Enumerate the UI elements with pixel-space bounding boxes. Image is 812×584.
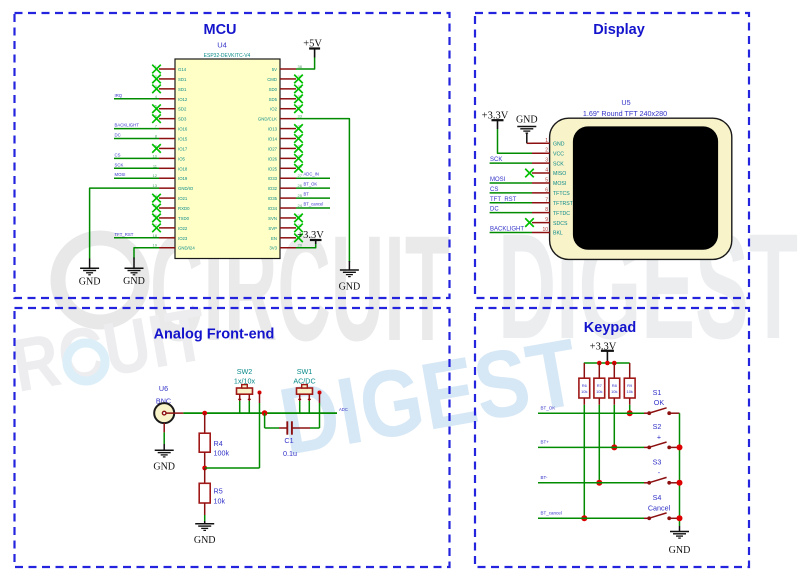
svg-text:5: 5: [545, 177, 548, 183]
svg-text:BKL: BKL: [553, 231, 563, 237]
U4 pin 8 (IO15) left stub: [155, 134, 188, 142]
svg-text:100k: 100k: [214, 449, 230, 458]
U4 pin 38 (5V) right stub: [272, 64, 303, 72]
svg-text:3: 3: [545, 158, 548, 164]
wire SW2 terminal to divider midpoint: [259, 403, 261, 468]
svg-text:TFT_RST: TFT_RST: [490, 197, 517, 203]
svg-text:GND: GND: [153, 462, 175, 473]
svg-text:+: +: [657, 432, 661, 441]
svg-text:S1: S1: [653, 388, 662, 397]
U4 pin 37 (CMD) right stub: [267, 74, 303, 83]
svg-text:IO22: IO22: [178, 226, 188, 231]
svg-text:U5: U5: [621, 98, 630, 107]
svg-text:GND: GND: [339, 281, 361, 292]
svg-text:IO32: IO32: [268, 186, 278, 191]
wire net DC to U5 pin 8: [490, 207, 532, 213]
wire net MOSI to U4 pin 12: [114, 172, 159, 178]
svg-text:10k: 10k: [214, 497, 226, 506]
svg-text:ESP32-DEVKITC-V4: ESP32-DEVKITC-V4: [204, 53, 251, 59]
svg-text:6: 6: [545, 187, 548, 193]
svg-text:R8: R8: [612, 383, 618, 388]
R4 labels: [214, 439, 230, 458]
svg-text:BT_cancel: BT_cancel: [304, 202, 324, 207]
display U5 screen: [573, 126, 718, 249]
svg-text:IO27: IO27: [268, 146, 278, 151]
svg-text:Keypad: Keypad: [584, 320, 636, 336]
junction node C1 branch: [262, 410, 268, 416]
svg-text:BACKLIGHT: BACKLIGHT: [490, 226, 524, 232]
switch S2 (+): [644, 442, 680, 449]
svg-text:IO18: IO18: [178, 166, 188, 171]
U4 pin 11 (IO18) left stub: [153, 163, 188, 171]
svg-text:MCU: MCU: [203, 22, 236, 38]
svg-text:2: 2: [545, 148, 548, 154]
wire +3.3V bus: [584, 362, 630, 364]
svg-text:IO19: IO19: [178, 176, 188, 181]
svg-text:AC/DC: AC/DC: [293, 377, 315, 386]
wire net SCK to U4 pin 11: [114, 162, 159, 168]
SW1 pin wires: [300, 401, 310, 413]
junction node R8 row: [611, 444, 617, 450]
U4 pin 34 (IO2) right stub: [270, 104, 303, 113]
U5 pin 8 (TFTDC) stub: [532, 207, 570, 217]
svg-text:MOSI: MOSI: [490, 177, 506, 183]
svg-text:GND/I24: GND/I24: [178, 246, 195, 251]
svg-text:IO25: IO25: [268, 166, 278, 171]
svg-text:IRQ: IRQ: [115, 93, 123, 98]
junction node R9 row: [627, 410, 633, 416]
svg-text:DC: DC: [490, 207, 499, 213]
svg-text:SCK: SCK: [553, 161, 564, 167]
svg-text:MOSI: MOSI: [553, 181, 566, 187]
svg-text:GND: GND: [194, 535, 216, 546]
wire net BT from U4 pin 25: [296, 192, 330, 199]
svg-text:ADC_IN: ADC_IN: [304, 172, 319, 177]
wire U4 5V pin to +5V: [296, 58, 315, 70]
U4 pin 32 (IO13) right stub: [268, 124, 303, 133]
switch S3 (-): [644, 477, 680, 484]
svg-text:IO26: IO26: [268, 156, 278, 161]
svg-text:Analog Front-end: Analog Front-end: [154, 327, 275, 343]
wire net IRQ to U4 pin 4: [114, 93, 159, 99]
U4 pin 24 (IO34) right stub: [268, 203, 303, 211]
display U5 body: [550, 118, 732, 259]
svg-text:R4: R4: [214, 439, 223, 448]
SW2 pin wires: [240, 401, 250, 413]
svg-text:SW2: SW2: [237, 367, 253, 376]
wire net TFT_RST to U4 pin 18: [114, 232, 159, 238]
U4 pin 25 (IO35) right stub: [268, 193, 303, 201]
svg-text:IO2: IO2: [270, 107, 278, 112]
wire net BT_OK from U4 pin 26: [296, 182, 330, 189]
U5 pin 4 (MISO) stub: [525, 168, 566, 178]
svg-text:Cancel: Cancel: [648, 503, 671, 512]
svg-text:SVN: SVN: [268, 216, 277, 221]
panel border: Display section: [475, 13, 749, 298]
U4 pin 12 (IO19) left stub: [153, 173, 188, 181]
svg-text:BT_OK: BT_OK: [304, 182, 318, 187]
resistor R8 (10k pull-up): [609, 363, 620, 405]
svg-text:SVP: SVP: [268, 226, 277, 231]
svg-text:SCK: SCK: [115, 162, 124, 167]
junction node divider midpoint: [202, 466, 207, 471]
svg-text:G14: G14: [178, 67, 187, 72]
BNC connector U6 body: [154, 403, 174, 423]
S1 labels: [653, 388, 665, 407]
ground symbol GND (BNC): [155, 450, 174, 457]
junction node R7 row: [596, 480, 602, 486]
wire U5 GND pin: [526, 133, 528, 143]
wire U4 3V3 pin to +3.3V: [296, 244, 316, 248]
svg-text:CS: CS: [490, 187, 498, 193]
svg-text:VCC: VCC: [553, 151, 564, 157]
wire main to C1: [265, 413, 279, 428]
svg-text:CMD: CMD: [267, 77, 277, 82]
svg-text:BACKLIGHT: BACKLIGHT: [115, 123, 140, 128]
svg-text:10k: 10k: [596, 389, 602, 394]
U4 pin 28 (IO25) right stub: [268, 163, 303, 172]
svg-text:BT_cancel: BT_cancel: [541, 511, 562, 516]
svg-text:R9: R9: [627, 383, 633, 388]
wire net CS to U4 pin 10: [114, 152, 159, 158]
U5 pin 2 (VCC) stub: [532, 148, 564, 158]
svg-text:GND/IO: GND/IO: [178, 186, 194, 191]
ground symbol GND (keypad): [679, 526, 681, 531]
svg-text:R6: R6: [582, 383, 588, 388]
svg-text:S2: S2: [653, 422, 662, 431]
power symbol +5V: [303, 39, 322, 58]
junction nodes keypad common: [677, 444, 683, 521]
SW2 labels: [234, 367, 256, 386]
switch S1 (OK): [644, 408, 680, 415]
svg-text:R7: R7: [597, 383, 603, 388]
svg-text:3V3: 3V3: [269, 246, 277, 251]
switch S4 (Cancel): [644, 513, 680, 520]
U4 pin 5 (SD2) left stub: [152, 104, 187, 113]
U5 pin 9 (SDCS) stub: [525, 217, 568, 227]
S2 labels: [653, 422, 662, 441]
wire net BACKLIGHT to U4 pin 7: [114, 123, 159, 129]
ground symbol GND (R5): [195, 524, 214, 531]
U4 pin 18 (IO23) left stub: [153, 233, 188, 241]
svg-text:1: 1: [545, 138, 548, 144]
svg-text:+3.3V: +3.3V: [297, 230, 324, 241]
svg-text:IO23: IO23: [178, 236, 188, 241]
svg-text:IO5: IO5: [178, 156, 186, 161]
svg-text:BT_OK: BT_OK: [541, 405, 556, 410]
wire net ADC_IN from U4 pin 27: [296, 172, 330, 179]
svg-text:C1: C1: [284, 436, 293, 445]
SW1 third terminal: [318, 391, 322, 404]
svg-text:IO34: IO34: [268, 206, 278, 211]
svg-text:GND: GND: [553, 142, 565, 148]
U4 pin 14 (IO21) left stub: [152, 193, 188, 202]
wire R8 to button row: [613, 405, 615, 448]
svg-text:IO12: IO12: [178, 97, 188, 102]
svg-text:ADC: ADC: [339, 407, 348, 412]
svg-text:+5V: +5V: [303, 39, 322, 50]
U4 pin 9 (IO17) left stub: [152, 143, 188, 152]
wire keypad common to GND: [679, 413, 681, 526]
R5 labels: [214, 487, 226, 506]
ground symbol GND (display): [516, 114, 538, 133]
watermark CIRCUIT DIGEST (background logo): [6, 202, 798, 476]
svg-text:IO16: IO16: [178, 127, 188, 132]
U4 pin 17 (IO22) left stub: [152, 223, 188, 232]
svg-text:IO33: IO33: [268, 176, 278, 181]
wire net TFT_RST to U5 pin 7: [490, 197, 532, 203]
U4 pin 16 (TXD0) left stub: [152, 213, 189, 222]
U4 pin 3 (SD1) left stub: [152, 84, 187, 93]
svg-text:U6: U6: [159, 384, 168, 393]
junction nodes on +3.3V bus: [597, 361, 617, 366]
U4 pin 7 (IO16) left stub: [155, 124, 188, 132]
wire net BACKLIGHT to U5 pin 10: [490, 226, 532, 232]
wire net BT_cancel from U4 pin 24: [296, 202, 330, 209]
wire net SCK to U5 pin 3: [490, 157, 532, 163]
svg-text:S4: S4: [653, 493, 662, 502]
U4 pin 35 (SD5) right stub: [269, 94, 303, 103]
wire R6 to button row: [583, 405, 585, 519]
wire U4 GND/CLK pin to GND (right): [296, 119, 349, 262]
svg-text:SD1: SD1: [178, 87, 187, 92]
svg-text:GND: GND: [123, 276, 145, 287]
svg-text:SCK: SCK: [490, 157, 502, 163]
ground symbol GND (MCU left 1): [89, 259, 91, 269]
ground symbol GND (MCU right): [348, 261, 350, 270]
resistor R5: [199, 468, 210, 524]
svg-text:1.69" Round TFT 240x280: 1.69" Round TFT 240x280: [583, 109, 667, 118]
panel border: Analog Front-end section: [15, 308, 450, 567]
svg-text:SD1: SD1: [178, 77, 187, 82]
U4 pin 20 (3V3) right stub: [269, 243, 302, 251]
svg-text:SD2: SD2: [178, 107, 187, 112]
svg-text:MOSI: MOSI: [115, 172, 126, 177]
svg-text:TFTRST: TFTRST: [553, 201, 574, 207]
svg-text:TFTDC: TFTDC: [553, 211, 570, 217]
svg-text:OK: OK: [654, 398, 665, 407]
svg-text:S3: S3: [653, 458, 662, 467]
svg-text:BT+: BT+: [541, 440, 550, 445]
svg-text:TFT_RST: TFT_RST: [115, 232, 134, 237]
wire divider tap: [205, 467, 260, 469]
wire net BT_OK row: [538, 405, 644, 413]
svg-text:IO35: IO35: [268, 196, 278, 201]
wire net BT_cancel row: [538, 511, 644, 519]
svg-text:GND: GND: [516, 114, 538, 125]
resistor R7 (10k pull-up): [594, 363, 605, 405]
U5 pin 7 (TFTRST) stub: [532, 197, 574, 207]
resistor R9 (10k pull-up): [624, 363, 635, 405]
svg-text:7: 7: [545, 197, 548, 203]
U4 pin 10 (IO5) left stub: [153, 153, 186, 161]
svg-text:Display: Display: [593, 22, 645, 38]
svg-text:DC: DC: [115, 133, 121, 138]
switch SW1 body: [297, 385, 313, 401]
panel border: MCU section: [15, 13, 450, 298]
U4 pin 23 (SVN) right stub: [268, 213, 303, 222]
U4 pin 4 (IO12) left stub: [155, 94, 188, 102]
svg-text:IO21: IO21: [178, 196, 188, 201]
U5 pin 6 (TFTCS) stub: [532, 187, 570, 197]
U4 pin 36 (SD0) right stub: [269, 84, 303, 93]
wire net CS to U5 pin 6: [490, 187, 532, 193]
svg-text:RXD0: RXD0: [178, 206, 190, 211]
S3 labels: [653, 458, 662, 477]
U5 pin 3 (SCK) stub: [532, 158, 564, 168]
U4 pin 22 (SVP) right stub: [268, 223, 302, 232]
svg-text:10k: 10k: [581, 389, 587, 394]
svg-text:BT-: BT-: [541, 475, 549, 480]
wire net BT- row: [538, 475, 644, 483]
U4 pin 33 (GND/CLK) right stub: [258, 114, 303, 122]
wire analog main signal: [183, 412, 337, 414]
SW1 labels: [293, 367, 315, 386]
svg-text:EN: EN: [271, 236, 277, 241]
wire net MOSI to U5 pin 5: [490, 177, 532, 183]
wire R9 to button row: [629, 405, 631, 413]
svg-text:0.1u: 0.1u: [283, 449, 297, 458]
svg-text:R5: R5: [214, 487, 223, 496]
svg-text:9: 9: [545, 217, 548, 223]
U5 pin 1 (GND) stub: [532, 138, 565, 148]
junction node R6 row: [581, 515, 587, 521]
U4 pin 19 (GND/I24) left stub: [153, 243, 196, 251]
U4 pin 13 (GND/IO) left stub: [153, 183, 194, 191]
svg-text:10: 10: [542, 227, 548, 233]
svg-text:SW1: SW1: [297, 367, 313, 376]
wire U4 pin 19 to GND: [134, 248, 159, 259]
svg-text:4: 4: [545, 168, 548, 174]
SW2 third terminal: [258, 391, 262, 404]
U4 pin 1 (G14) left stub: [152, 64, 187, 73]
svg-text:SD5: SD5: [269, 97, 278, 102]
svg-text:GND/CLK: GND/CLK: [258, 117, 277, 122]
svg-text:MISO: MISO: [553, 171, 566, 177]
wire +3.3V to U5 VCC pin: [498, 129, 533, 153]
C1 labels: [283, 436, 297, 458]
svg-text:U4: U4: [217, 41, 227, 50]
wire net DC to U4 pin 8: [114, 133, 159, 139]
U4 pin 21 (EN) right stub: [271, 233, 303, 242]
power symbol +3.3V (display): [482, 110, 509, 129]
U4 pin 26 (IO32) right stub: [268, 183, 303, 191]
U4 pin 6 (SD3) left stub: [152, 114, 187, 123]
svg-text:SD3: SD3: [178, 117, 187, 122]
wire SW1 terminal to C1: [319, 403, 321, 428]
U5 pin 10 (BKL) stub: [532, 227, 563, 237]
S4 labels: [648, 493, 671, 512]
svg-text:10k: 10k: [611, 389, 617, 394]
svg-text:IO13: IO13: [268, 127, 278, 132]
wire net BT+ row: [538, 440, 644, 448]
svg-text:10k: 10k: [626, 389, 632, 394]
svg-text:IO17: IO17: [178, 146, 188, 151]
capacitor C1: [279, 421, 310, 434]
junction node at R4 top: [202, 411, 207, 416]
ground symbol GND (MCU left 2): [133, 258, 135, 269]
U4 pin 30 (IO27) right stub: [268, 143, 303, 152]
U5 pin 5 (MOSI) stub: [532, 177, 566, 187]
wire C1 to SW1 terminal: [310, 427, 320, 429]
resistor R6 (10k pull-up): [579, 363, 590, 405]
svg-text:1x/10x: 1x/10x: [234, 377, 256, 386]
svg-text:8: 8: [545, 207, 548, 213]
U4 pin 2 (SD1) left stub: [152, 74, 187, 83]
power symbol +3.3V (keypad): [590, 341, 617, 363]
MCU U4 body: [175, 59, 280, 259]
switch SW2 body: [237, 385, 253, 401]
wire U4 pin 13 to GND: [90, 188, 159, 258]
svg-text:IO14: IO14: [268, 137, 278, 142]
svg-text:BT: BT: [304, 192, 310, 197]
svg-text:5V: 5V: [272, 67, 277, 72]
U4 pin 31 (IO14) right stub: [268, 134, 303, 143]
U4 pin 15 (RXD0) left stub: [152, 203, 190, 212]
svg-text:SD0: SD0: [269, 87, 278, 92]
svg-text:TFTCS: TFTCS: [553, 191, 570, 197]
power symbol +3.3V (MCU): [297, 230, 324, 244]
svg-text:TXD0: TXD0: [178, 216, 190, 221]
wire R7 to button row: [598, 405, 600, 483]
U6 shield pin to GND: [163, 423, 165, 450]
svg-text:GND: GND: [79, 276, 101, 287]
U4 pin 29 (IO26) right stub: [268, 153, 303, 162]
svg-text:IO15: IO15: [178, 137, 188, 142]
svg-text:GND: GND: [669, 545, 691, 556]
svg-text:CS: CS: [115, 152, 121, 157]
svg-text:SDCS: SDCS: [553, 221, 568, 227]
panel border: Keypad section: [475, 308, 749, 567]
resistor R4: [199, 413, 210, 468]
U4 pin 27 (IO33) right stub: [268, 173, 303, 181]
U6 signal pin stub: [166, 412, 183, 414]
